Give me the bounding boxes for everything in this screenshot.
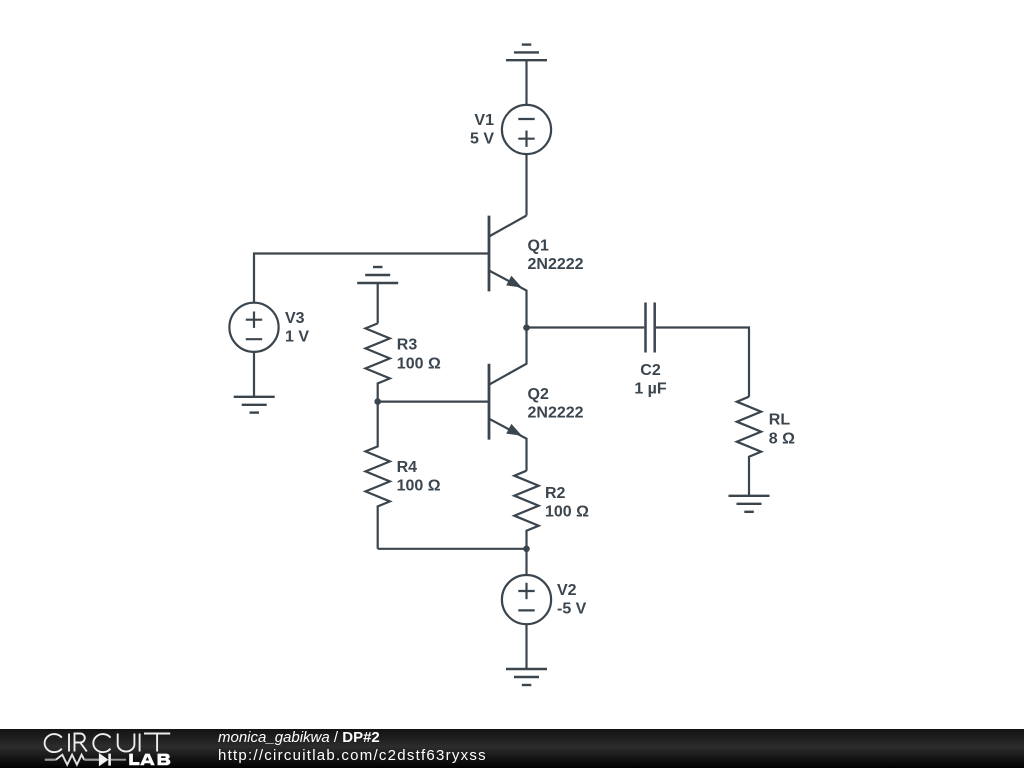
label R2 100 Ω [545,485,589,521]
wire V3 to ground [253,352,255,397]
svg-text:V1: V1 [474,112,494,129]
resistor R4 [366,402,390,549]
wire R4 to bottom node [378,548,527,550]
wire node to Q2 base [378,401,489,403]
label V3 1 V [285,310,309,346]
label V1 5 V [470,112,494,148]
ground (below V2) [506,669,547,685]
node (R3/R4 junction) [374,398,381,405]
resistor R3 [366,323,390,401]
svg-text:R3: R3 [397,337,418,354]
wire C2 to RL [656,328,749,397]
ground (below RL) [729,496,770,512]
label RL 8 Ω [769,412,795,448]
wire V1 to Q1 collector [525,154,527,215]
svg-text:V3: V3 [285,310,305,327]
svg-text:2N2222: 2N2222 [528,256,584,273]
resistor RL [737,397,761,496]
wire V2 to ground [525,624,527,669]
svg-text:R2: R2 [545,485,566,502]
resistor R2 [514,471,538,549]
label R3 100 Ω [397,337,441,373]
ground (below V3) [234,397,275,413]
voltage source V1 [502,105,551,154]
svg-text:1 µF: 1 µF [634,381,667,398]
svg-text:2N2222: 2N2222 [528,405,584,422]
voltage source V3 [229,303,278,352]
svg-text:Q1: Q1 [528,238,549,255]
svg-text:Q2: Q2 [528,386,549,403]
wire V3 to Q1 base [254,254,489,303]
svg-text:R4: R4 [397,459,418,476]
svg-text:C2: C2 [640,362,661,379]
wire node to C2 [527,326,645,328]
label R4 100 Ω [397,459,441,495]
label Q2 2N2222 [528,386,584,422]
footer bar [0,729,1024,768]
label Q1 2N2222 [528,238,584,274]
footer title text [218,729,487,765]
node (Q1 emitter / Q2 collector / C2) [523,324,530,331]
CircuitLab logo [0,729,190,768]
transistor Q1 [489,216,527,328]
svg-text:1 V: 1 V [285,329,309,346]
wire ground to V1 [525,60,527,105]
logo resistor + diode glyph [45,753,126,765]
svg-text:100 Ω: 100 Ω [397,355,441,372]
ground (top, above V1) [506,45,547,61]
logo word CIRCUIT [45,733,171,752]
svg-text:100 Ω: 100 Ω [397,478,441,495]
svg-text:8 Ω: 8 Ω [769,430,795,447]
svg-text:100 Ω: 100 Ω [545,504,589,521]
wire Q2 emitter to R2 [525,470,527,472]
label V2 -5 V [557,582,587,618]
svg-text:-5 V: -5 V [557,601,587,618]
transistor Q2 [489,328,527,471]
svg-text:5 V: 5 V [470,131,494,148]
ground (above R3) [357,267,398,283]
voltage source V2 [502,575,551,624]
label C2 1 µF [634,362,667,398]
capacitor C2 [646,303,655,353]
svg-text:V2: V2 [557,582,577,599]
wire node to V2 [525,549,527,575]
node (R2/R4/V2 junction) [523,546,530,553]
logo word LAB [129,753,170,765]
wire ground to R3 [377,283,379,323]
svg-text:RL: RL [769,412,791,429]
